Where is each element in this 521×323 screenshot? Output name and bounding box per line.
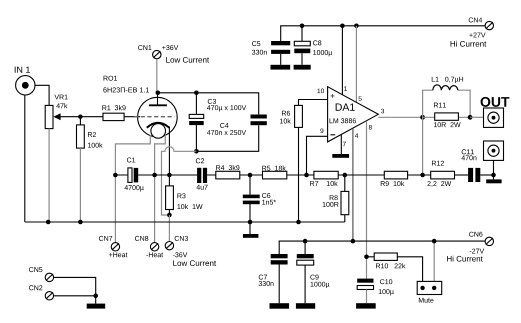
node R2/ground-bus junction	[78, 220, 83, 225]
ground below C10	[356, 303, 376, 308]
wire pin 7 to ground	[340, 134, 342, 154]
ground below C9	[296, 303, 315, 309]
op-amp DA1 LM3886	[328, 87, 379, 142]
pin number 10	[318, 89, 324, 94]
capacitor C2 4u7	[196, 158, 208, 189]
wire to OUT jack 1	[470, 116, 483, 118]
node CN5/CN2 junction	[93, 294, 98, 299]
resistor R9 10k	[381, 171, 431, 186]
node VR1 wiper / R2 top junction	[78, 115, 82, 119]
wire R2 top lead	[79, 117, 81, 125]
wire heater left leg to CN7 riser	[115, 135, 150, 243]
capacitor C1 4700u heater filter	[115, 158, 197, 192]
capacitor C6 1n5	[243, 175, 276, 222]
pin number 5	[359, 96, 362, 101]
capacitor C9 1000u	[297, 241, 330, 303]
node C9 top junction	[303, 239, 308, 244]
ground below pin 7	[332, 154, 349, 158]
node R3 bottom / -36V junction	[167, 213, 172, 218]
wire C3/C4 bottom hop over cathode to R3 bottom (-36V net)	[162, 147, 197, 215]
resistor R5 18k	[262, 166, 314, 179]
wire pin 4 riser to -27V bus	[352, 128, 354, 241]
connector CN4 +27V	[451, 18, 494, 47]
wire heater right leg to CN8 riser	[155, 135, 166, 243]
wire output node down to R9/R12	[422, 117, 424, 175]
node output L1/R11 left junction	[420, 115, 425, 120]
pin number 7	[343, 142, 346, 146]
capacitor C5 330n	[252, 41, 290, 65]
resistor R6 10k	[280, 105, 302, 127]
node heater- junction	[152, 173, 157, 178]
node VR1/ground-bus junction	[46, 220, 51, 225]
wire Mute right pin to -27V bus	[433, 241, 435, 281]
ground below C8	[294, 65, 311, 70]
capacitor C10 100u	[357, 279, 394, 304]
wire pin 1 riser	[341, 26, 343, 95]
wire inverting input pin 9 to feedback node	[307, 136, 328, 175]
ground below C5	[271, 65, 291, 70]
wire R2 bottom to ground bus	[79, 148, 81, 222]
ground right of C11	[486, 179, 501, 183]
node R9/R12 junction	[420, 173, 425, 178]
connector OUT jack hot	[484, 108, 504, 127]
tube RO1 6N23P-EV triode	[103, 76, 177, 175]
resistor R4 3k9	[207, 165, 262, 179]
wire CN5 to CN2 ground	[54, 277, 96, 295]
resistor R3 10k 1W	[166, 175, 203, 215]
pin number 1	[344, 86, 347, 90]
inductor L1 0,7uH	[423, 77, 471, 118]
node pin1 supply junction	[340, 24, 345, 29]
wire jack return riser	[493, 160, 495, 179]
connector CN8 -Heat	[135, 236, 163, 257]
connector CN7 +Heat	[99, 236, 127, 257]
node R10 left junction	[364, 254, 369, 259]
node Mute bus junction	[432, 239, 437, 244]
connector Mute	[417, 281, 442, 302]
resistor R10 22k	[367, 253, 406, 268]
connector CN2	[29, 285, 54, 300]
capacitor C7 330n	[259, 254, 288, 303]
connector CN3 -36V	[165, 236, 216, 266]
pin number 4	[355, 133, 358, 137]
connector CN1 +36V	[138, 45, 209, 63]
resistor R7 10k	[310, 171, 384, 186]
potentiometer VR1 47k	[45, 95, 67, 129]
ground below CN2	[87, 304, 106, 309]
pin number 3	[381, 109, 384, 114]
wire IN1 center to VR1 top	[35, 85, 49, 105]
ground below C7	[270, 303, 290, 309]
wire R1 to tube grid	[124, 116, 135, 118]
wire +27V top bus	[281, 26, 485, 41]
wire pin 5 riser	[355, 26, 357, 103]
resistor R1 3k9	[102, 105, 125, 120]
resistor R11 10R 2W	[423, 103, 471, 127]
wire VR1 wiper to R1 and grid	[60, 116, 103, 118]
wire CN2 to ground	[54, 296, 96, 304]
resistor R2 100k	[77, 125, 103, 148]
connector OUT jack return	[484, 141, 504, 160]
OUT label	[481, 97, 510, 107]
wire CN1 to +36V node	[156, 59, 158, 93]
wire -27V bottom bus	[279, 241, 485, 254]
node pin4 supply junction	[351, 239, 356, 244]
node C6 top junction	[248, 173, 253, 178]
node R8 top junction	[343, 173, 348, 178]
node heater+ / C1 left junction	[113, 173, 118, 178]
connector IN1 (RCA jack)	[15, 67, 35, 95]
node anode/+36V junction	[156, 91, 161, 96]
wire output pin 3	[378, 116, 422, 118]
node R6/ground-bus junction	[296, 220, 301, 225]
node C3/C4 bottom junction	[194, 149, 199, 154]
ground symbol below C6	[249, 222, 251, 234]
node pin5 supply junction	[354, 24, 359, 29]
node C3 top junction	[194, 91, 199, 96]
node C6/ground-bus junction	[248, 220, 253, 225]
wire VR1 bottom to ground bus	[48, 129, 50, 222]
wire R3 bottom to CN3	[168, 215, 170, 241]
connector CN5	[29, 267, 54, 281]
node cathode junction	[167, 173, 172, 178]
resistor R8 100R	[323, 175, 349, 222]
capacitor C3 470u x 100V	[189, 93, 246, 152]
wire IN1 shield down to ground bus	[24, 95, 26, 222]
wire pin 8 mute riser	[366, 121, 368, 279]
wire R6 bottom to ground bus	[298, 127, 300, 222]
wire R10 right to Mute left pin	[397, 257, 422, 282]
node C8 top junction	[300, 24, 305, 29]
ground bus wire (signal ground)	[25, 221, 345, 223]
wire noninverting input to R6	[299, 100, 328, 106]
capacitor C4 470n x 250V	[196, 115, 266, 152]
node C11/jack return junction	[491, 173, 496, 178]
capacitor C8 1000u	[294, 26, 332, 65]
capacitor C11 470n	[461, 149, 493, 182]
node feedback junction	[304, 173, 309, 178]
pin number 9	[320, 128, 323, 133]
node L1/R11 right junction	[468, 115, 473, 120]
resistor R12 2,2 2W	[427, 161, 468, 187]
pin number 8	[369, 125, 372, 130]
connector CN6 -27V	[447, 232, 493, 262]
wire +36V bus to C3 C4	[158, 93, 259, 115]
